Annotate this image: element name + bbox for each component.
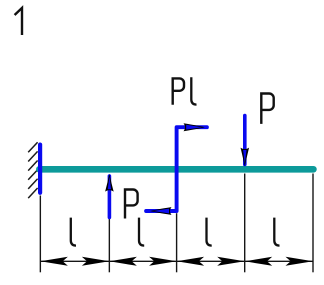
label Pl (173, 77, 184, 105)
extension line under force P down (244, 174, 246, 273)
label 1 (scheme number) (15, 8, 22, 35)
moment Pl top arrowhead (184, 123, 205, 131)
force P down (arrowhead) (241, 148, 250, 167)
extension line at support (39, 196, 41, 273)
force P up (arrowhead) (105, 174, 114, 192)
label P (up force) (125, 188, 138, 218)
dimension arrows segment 4 (245, 257, 273, 266)
wall hatching (28, 142, 37, 198)
extension line under force P up (108, 219, 110, 272)
extension line under moment (176, 213, 178, 272)
label l segment 2 (139, 218, 144, 246)
force P down (arrow shaft) (243, 116, 247, 165)
fixed support (wall line) (38, 145, 42, 193)
force P up (arrow shaft) (108, 176, 112, 217)
extension line at beam free end (312, 174, 314, 273)
dimension line (40, 260, 313, 262)
label P (down force) (261, 92, 273, 124)
beam (39, 166, 313, 173)
dimension arrows segment 2 (109, 257, 137, 266)
dimension arrows segment 3 (177, 257, 205, 266)
moment Pl bottom arrowhead (150, 207, 172, 215)
label l segment 4 (274, 218, 279, 246)
dimension arrows segment 1 (40, 257, 68, 266)
label l segment 3 (207, 218, 212, 246)
moment Pl (couple line) (146, 127, 207, 211)
label l segment 1 (71, 218, 76, 246)
